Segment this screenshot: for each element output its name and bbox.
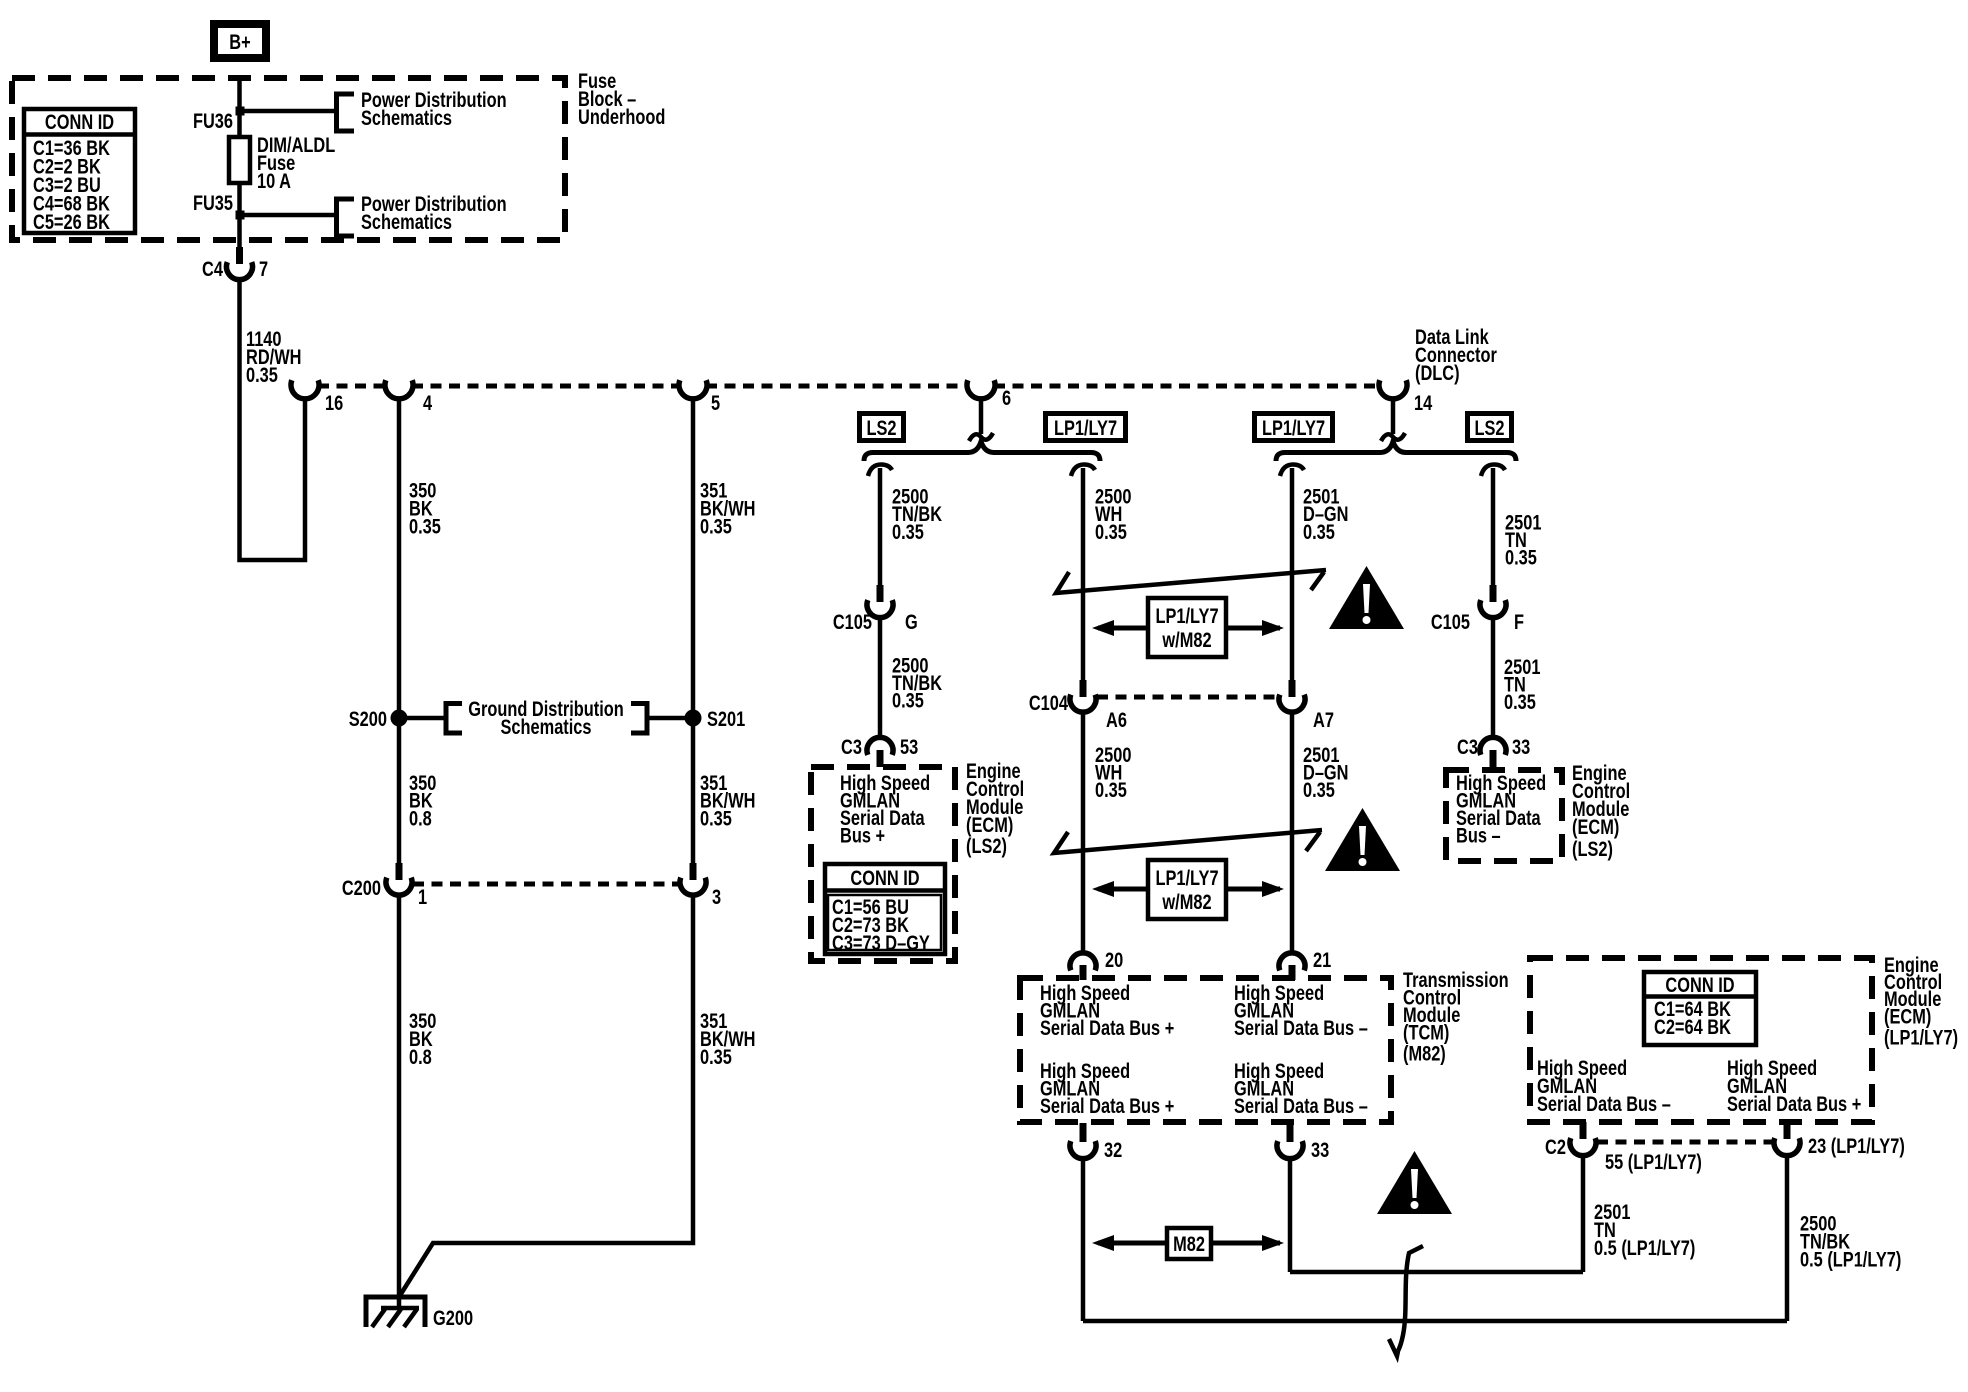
connector C104 pin A7	[1279, 680, 1334, 731]
svg-text:FU35: FU35	[193, 191, 233, 214]
svg-text:A7: A7	[1313, 708, 1334, 731]
conn id table (ECM LP1/LY7)	[1644, 972, 1756, 1045]
leader arrow to note (upper)	[1056, 570, 1326, 593]
label 2500 TN/BK 0.5 (LP1/LY7)	[1800, 1212, 1901, 1271]
label 2501 TN 0.35	[1505, 511, 1541, 569]
label 2500 WH 0.35	[1095, 485, 1131, 544]
label engine control module (ECM) (LP1/LY7)	[1884, 953, 1958, 1049]
svg-text:20: 20	[1105, 948, 1123, 971]
wire 2501 D-GN lower	[1290, 712, 1295, 953]
svg-text:0.35: 0.35	[700, 1045, 732, 1068]
label M82 with arrows	[1092, 1228, 1284, 1259]
connector C3 pin 53	[841, 735, 918, 767]
connector TCM pin 33	[1277, 1123, 1329, 1161]
label 350 BK 0.8	[409, 771, 436, 830]
connector DLC pin 5	[679, 380, 720, 414]
wire stub below DLC pin 6 with break	[979, 398, 984, 434]
svg-text:0.35: 0.35	[892, 520, 924, 543]
box engine option LS2 (right)	[1468, 414, 1512, 441]
svg-text:LP1/LY7: LP1/LY7	[1262, 416, 1325, 439]
box engine option LP1/LY7 (right)	[1255, 414, 1333, 441]
bracket ground distribution right	[631, 704, 647, 734]
svg-text:Serial Data Bus +: Serial Data Bus +	[1727, 1092, 1861, 1115]
svg-text:(ECM): (ECM)	[1884, 1005, 1931, 1028]
svg-text:CONN ID: CONN ID	[1665, 973, 1734, 996]
wire 350 BK 0.8 from S200 to C200	[397, 718, 402, 863]
label 2500 TN/BK 0.35	[892, 485, 942, 544]
svg-text:B+: B+	[229, 30, 250, 53]
label data link connector (DLC)	[1415, 325, 1497, 384]
label ECM serial data bus + (pin 23)	[1727, 1056, 1861, 1115]
wire hook 2501 TN top	[1481, 465, 1505, 477]
svg-text:0.35: 0.35	[1095, 778, 1127, 801]
wire C2 dashed connector line	[1597, 1140, 1773, 1145]
label 351 BK/WH 0.35 (third)	[700, 1009, 755, 1068]
label DIM/ALDL fuse 10 A	[257, 133, 335, 192]
svg-text:Schematics: Schematics	[361, 210, 452, 233]
svg-text:LS2: LS2	[866, 416, 896, 439]
svg-text:(LP1/LY7): (LP1/LY7)	[1884, 1026, 1958, 1049]
wire C104 dashed connector line	[1097, 695, 1278, 700]
svg-text:(M82): (M82)	[1403, 1042, 1446, 1065]
svg-text:7: 7	[259, 257, 268, 280]
fuse block - underhood dashed box	[12, 78, 565, 240]
label 2501 TN 0.35 (second)	[1504, 655, 1540, 713]
svg-text:LP1/LY7: LP1/LY7	[1054, 416, 1117, 439]
svg-text:14: 14	[1414, 391, 1433, 414]
label high speed GMLAN serial data bus -	[1456, 771, 1546, 847]
wire 2500 TN/BK from ECM 23 down	[1785, 1155, 1790, 1322]
wire C200 dashed connector line	[413, 882, 679, 887]
wire S200 to ground distribution bracket	[399, 716, 446, 721]
conn id table (ECM LS2)	[825, 864, 945, 954]
connector TCM pin 32	[1070, 1123, 1122, 1161]
svg-text:LP1/LY7: LP1/LY7	[1155, 604, 1218, 627]
wire hook 2500 TN/BK top	[868, 465, 892, 477]
warning triangle (middle)	[1325, 808, 1400, 871]
svg-text:CONN ID: CONN ID	[850, 866, 919, 889]
svg-text:33: 33	[1311, 1138, 1329, 1161]
label transmission control module (TCM) (M82)	[1403, 968, 1509, 1065]
svg-text:21: 21	[1313, 948, 1331, 971]
label 1140 RD/WH 0.35	[246, 327, 301, 386]
wire 350 BK 0.8 from C200 to G200	[397, 895, 402, 1309]
label TCM serial data bus - (pin 21)	[1234, 981, 1368, 1039]
svg-text:Underhood: Underhood	[578, 105, 665, 128]
box engine option LP1/LY7 (left)	[1046, 414, 1126, 441]
svg-text:C104: C104	[1029, 691, 1069, 714]
svg-text:C105: C105	[1431, 610, 1470, 633]
label 2501 TN 0.5 (LP1/LY7)	[1594, 1200, 1695, 1259]
label ECM serial data bus - (pin C2-55)	[1537, 1056, 1671, 1115]
label 350 BK 0.35	[409, 479, 441, 538]
svg-text:0.35: 0.35	[246, 363, 278, 386]
label ground distribution schematics	[468, 697, 624, 738]
wire FU35 branch	[240, 213, 337, 218]
wire fuse output	[237, 183, 242, 247]
connector C105 pin F	[1431, 585, 1524, 633]
svg-text:16: 16	[325, 391, 343, 414]
connector DLC pin 4	[385, 380, 433, 414]
box ECM LP1/LY7 (dashed)	[1530, 958, 1872, 1122]
svg-text:0.8: 0.8	[409, 807, 432, 830]
svg-text:Schematics: Schematics	[361, 106, 452, 129]
svg-text:10 A: 10 A	[257, 169, 291, 192]
connector DLC pin 6	[967, 380, 1011, 409]
wire stub below DLC pin 14 with break	[1391, 398, 1396, 434]
svg-text:3: 3	[712, 885, 721, 908]
svg-text:C3=73 D–GY: C3=73 D–GY	[832, 931, 930, 954]
box engine option LS2 (left)	[860, 414, 904, 441]
wire 2500 WH upper	[1081, 468, 1086, 680]
wire 2501 TN from ECM C2 down	[1581, 1155, 1586, 1273]
svg-text:1: 1	[418, 885, 427, 908]
wire 2501 TN from TCM 33 down	[1288, 1159, 1293, 1273]
warning triangle (lower)	[1377, 1151, 1452, 1214]
connector C3 pin 33	[1457, 735, 1530, 767]
wire 2501 TN horizontal joining 33 and C2	[1290, 1270, 1583, 1275]
node splice S200	[391, 710, 408, 727]
wire 2501 TN upper	[1491, 468, 1496, 585]
svg-text:0.35: 0.35	[700, 807, 732, 830]
svg-text:23 (LP1/LY7): 23 (LP1/LY7)	[1808, 1134, 1905, 1157]
label 2500 WH 0.35 (second)	[1095, 743, 1131, 801]
svg-text:55 (LP1/LY7): 55 (LP1/LY7)	[1605, 1150, 1702, 1173]
svg-text:0.35: 0.35	[1095, 520, 1127, 543]
svg-text:C2=64 BK: C2=64 BK	[1654, 1015, 1731, 1038]
svg-text:(ECM): (ECM)	[1572, 815, 1619, 838]
wire 351 BK/WH from DLC pin 5 to S201	[691, 398, 696, 718]
node splice S201	[685, 710, 702, 727]
label engine control module (ECM) (LS2) left	[966, 759, 1024, 857]
connector C104 pin A6	[1029, 680, 1127, 731]
connector C105 pin G	[833, 585, 918, 633]
svg-text:w/M82: w/M82	[1162, 628, 1212, 651]
wire 351 BK/WH from S201 to C200	[691, 718, 696, 863]
label 2501 D-GN 0.35	[1303, 485, 1349, 544]
svg-text:C200: C200	[342, 876, 381, 899]
wire hook 2500 WH top	[1071, 465, 1095, 477]
wire S201 to ground distribution bracket	[647, 716, 693, 721]
svg-text:53: 53	[900, 735, 918, 758]
svg-text:(LS2): (LS2)	[1572, 837, 1613, 860]
svg-text:C2: C2	[1545, 1135, 1566, 1158]
svg-text:0.35: 0.35	[1303, 520, 1335, 543]
svg-text:M82: M82	[1173, 1232, 1205, 1255]
box TCM (dashed)	[1020, 978, 1391, 1122]
wire 1140 RD/WH from C4 to DLC pin 16	[240, 280, 306, 561]
wire 2500 TN/BK from TCM 32 down	[1081, 1159, 1086, 1322]
svg-text:0.35: 0.35	[1505, 546, 1537, 569]
label 2500 TN/BK 0.35 (second)	[892, 654, 942, 712]
ground G200	[366, 1297, 473, 1329]
brace under DLC pin 6	[864, 442, 1100, 462]
label TCM serial data bus - (pin 33)	[1234, 1059, 1368, 1117]
bracket power distribution 1	[337, 94, 355, 131]
svg-text:0.35: 0.35	[1504, 690, 1536, 713]
warning triangle (upper)	[1329, 566, 1404, 629]
box ECM LS2 serial data - (dashed)	[1446, 770, 1562, 861]
label high speed GMLAN serial data bus +	[840, 771, 930, 847]
label 351 BK/WH 0.35	[700, 479, 755, 538]
svg-text:(LS2): (LS2)	[966, 834, 1007, 857]
label TCM serial data bus + (pin 20)	[1040, 981, 1174, 1039]
svg-text:0.35: 0.35	[892, 689, 924, 712]
svg-text:LS2: LS2	[1474, 416, 1504, 439]
fuse block label	[578, 69, 665, 128]
leader arrow to note (middle)	[1054, 830, 1322, 853]
wire 2501 D-GN upper	[1290, 468, 1295, 680]
svg-text:Serial Data Bus –: Serial Data Bus –	[1234, 1094, 1368, 1117]
leader arrow to note (bottom)	[1389, 1246, 1423, 1356]
bracket power distribution 2	[337, 199, 355, 236]
svg-text:Bus –: Bus –	[1456, 824, 1501, 847]
label LP1/LY7 w/M82 with arrows (lower)	[1092, 860, 1284, 919]
brace under DLC pin 14	[1276, 442, 1516, 462]
svg-text:(TCM): (TCM)	[1403, 1021, 1449, 1044]
svg-text:C105: C105	[833, 610, 872, 633]
conn id table (fuse block)	[24, 109, 135, 233]
svg-text:LP1/LY7: LP1/LY7	[1155, 866, 1218, 889]
svg-text:C5=26 BK: C5=26 BK	[33, 210, 110, 233]
label power distribution schematics 2	[361, 192, 507, 233]
wire hook 2501 D-GN top	[1280, 465, 1304, 477]
connector C4 pin 7	[202, 247, 268, 280]
connector ECM pin 23	[1774, 1122, 1905, 1157]
svg-text:FU36: FU36	[193, 109, 233, 132]
svg-text:32: 32	[1104, 1138, 1122, 1161]
box ECM LS2 serial data + (dashed)	[811, 767, 955, 961]
svg-text:Serial Data Bus –: Serial Data Bus –	[1537, 1092, 1671, 1115]
svg-text:CONN ID: CONN ID	[45, 110, 114, 133]
svg-text:33: 33	[1512, 735, 1530, 758]
svg-text:0.35: 0.35	[409, 515, 441, 538]
svg-text:Serial Data Bus +: Serial Data Bus +	[1040, 1016, 1174, 1039]
connector C200 pin 1	[342, 863, 427, 908]
connector ECM C2 pin 55	[1545, 1122, 1702, 1173]
wire 2500 TN/BK lower	[878, 618, 883, 738]
svg-text:6: 6	[1002, 386, 1011, 409]
svg-text:0.8: 0.8	[409, 1045, 432, 1068]
svg-text:5: 5	[711, 391, 720, 414]
wire FU36 branch	[240, 109, 337, 114]
wire 350 BK from DLC pin 4 to S200	[397, 398, 402, 718]
svg-text:w/M82: w/M82	[1162, 890, 1212, 913]
label LP1/LY7 w/M82 with arrows (upper)	[1092, 598, 1284, 657]
svg-text:C3: C3	[1457, 735, 1478, 758]
svg-text:F: F	[1514, 610, 1524, 633]
battery feed B+ terminal box	[214, 24, 266, 58]
svg-text:Serial Data Bus +: Serial Data Bus +	[1040, 1094, 1174, 1117]
svg-text:Schematics: Schematics	[500, 715, 591, 738]
svg-text:G: G	[905, 610, 918, 633]
svg-text:0.5 (LP1/LY7): 0.5 (LP1/LY7)	[1800, 1248, 1901, 1271]
wire 2500 TN/BK horizontal joining 32 and 23	[1083, 1319, 1787, 1324]
svg-text:0.35: 0.35	[1303, 778, 1335, 801]
wire 2500 TN/BK upper	[878, 468, 883, 585]
svg-text:(DLC): (DLC)	[1415, 361, 1460, 384]
connector C200 pin 3	[680, 863, 721, 908]
bracket ground distribution left	[446, 704, 462, 734]
svg-text:Bus +: Bus +	[840, 824, 885, 847]
fuse DIM/ALDL 10A	[229, 137, 250, 183]
wire 2501 TN lower	[1491, 618, 1496, 738]
svg-text:0.5 (LP1/LY7): 0.5 (LP1/LY7)	[1594, 1236, 1695, 1259]
svg-text:4: 4	[423, 391, 433, 414]
svg-text:C4: C4	[202, 257, 223, 280]
svg-text:0.35: 0.35	[700, 515, 732, 538]
svg-text:S200: S200	[349, 707, 387, 730]
wire B+ feed into fuse block	[237, 78, 242, 137]
label power distribution schematics 1	[361, 88, 507, 129]
label 350 BK 0.8 (second)	[409, 1009, 436, 1068]
svg-text:A6: A6	[1106, 708, 1127, 731]
label 2501 D-GN 0.35 (second)	[1303, 743, 1349, 801]
label 351 BK/WH 0.35 (second)	[700, 771, 755, 830]
label TCM serial data bus + (pin 32)	[1040, 1059, 1174, 1117]
node FU35 junction	[236, 211, 245, 220]
node FU36 junction	[236, 107, 245, 116]
wire 351 BK/WH from C200 down and over to ground	[399, 895, 693, 1297]
svg-text:G200: G200	[433, 1306, 473, 1329]
svg-text:C3: C3	[841, 735, 862, 758]
svg-text:S201: S201	[707, 707, 745, 730]
connector TCM pin 21	[1279, 948, 1331, 980]
connector DLC pin 16	[291, 380, 343, 414]
svg-text:(ECM): (ECM)	[966, 813, 1013, 836]
wire 2500 WH lower	[1081, 712, 1086, 953]
label engine control module (ECM) (LS2) right	[1572, 761, 1630, 860]
connector DLC pin 14	[1379, 380, 1433, 414]
svg-text:Serial Data Bus –: Serial Data Bus –	[1234, 1016, 1368, 1039]
wire DLC dashed bus	[292, 384, 1380, 389]
connector TCM pin 20	[1070, 948, 1123, 980]
